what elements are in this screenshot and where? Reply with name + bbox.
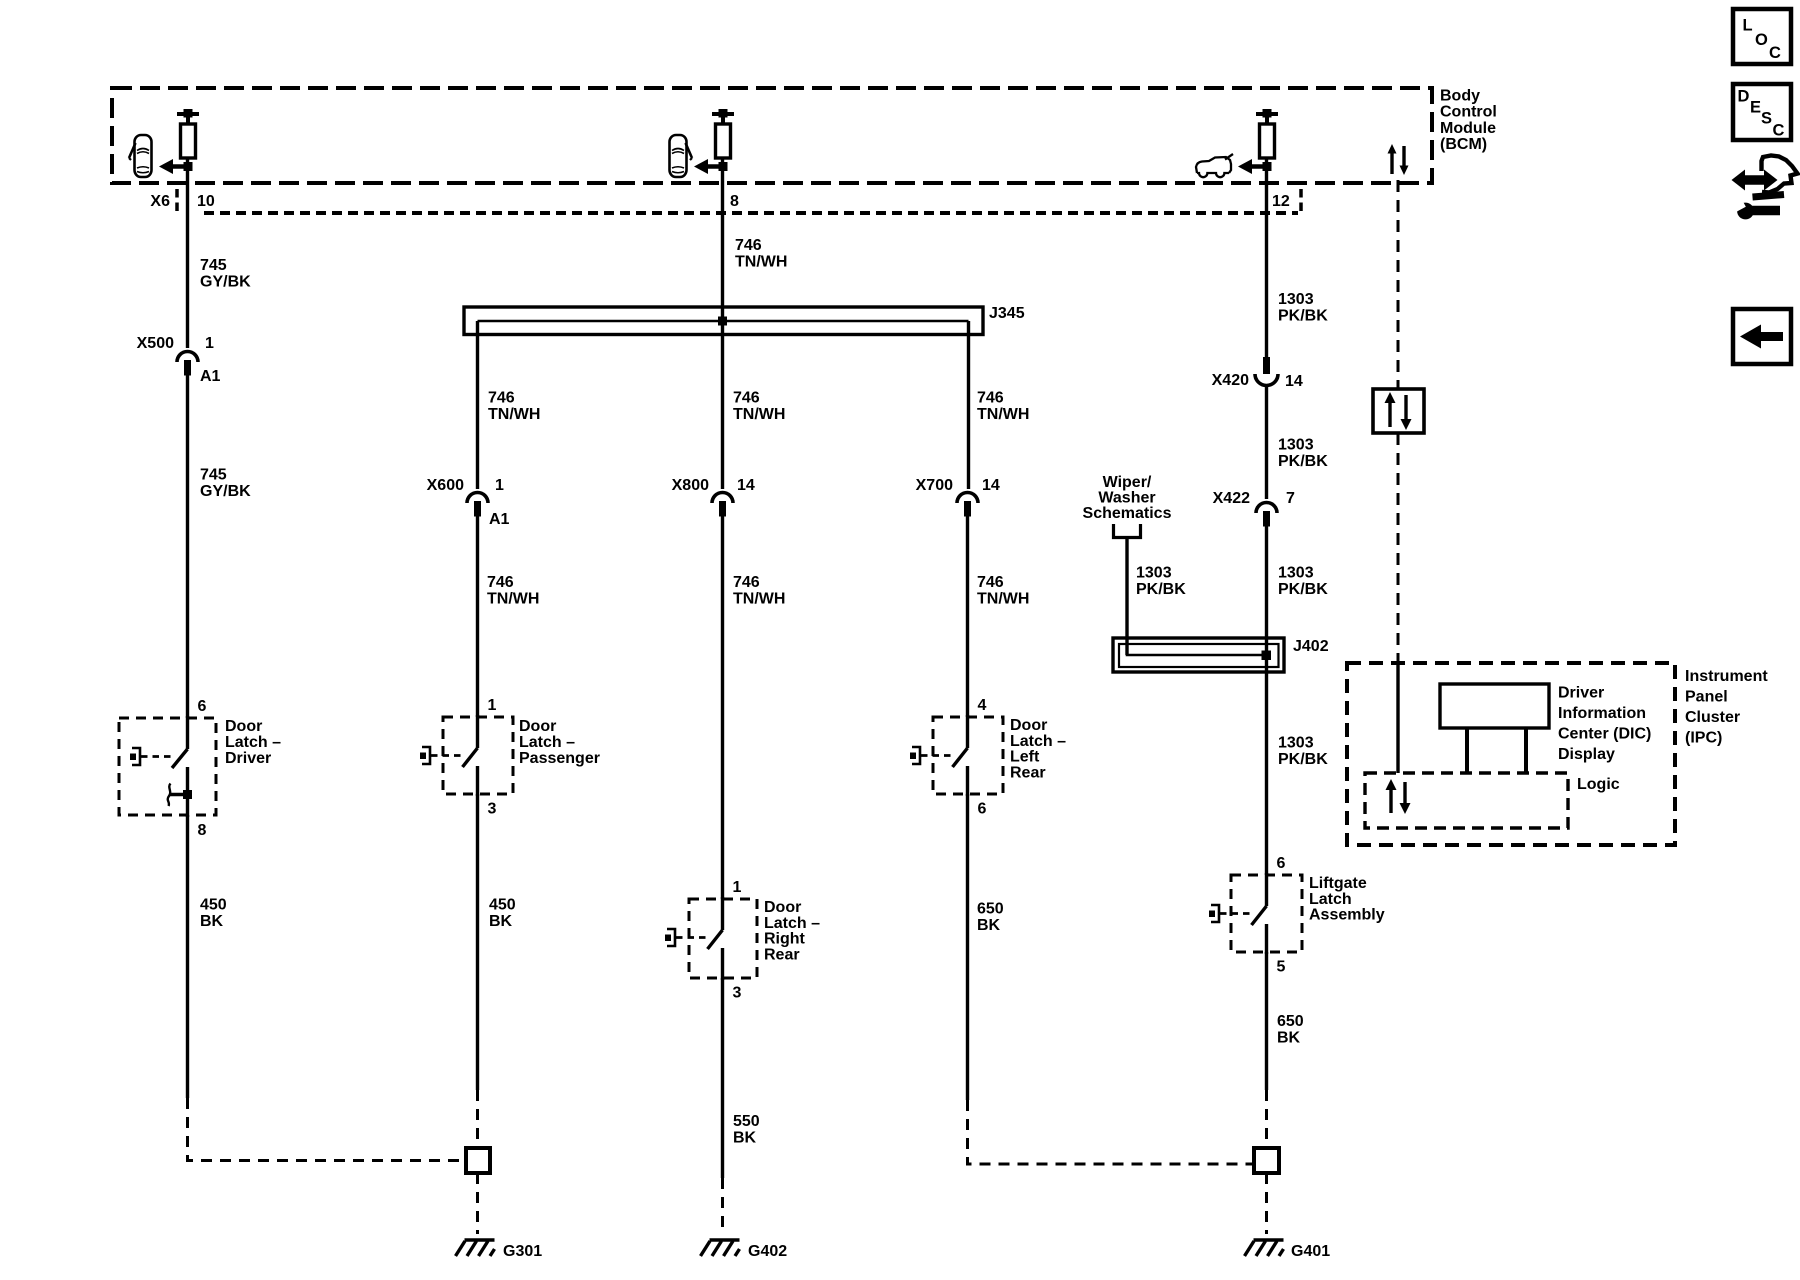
svg-text:8: 8 (198, 822, 207, 839)
junction dot (719, 162, 728, 171)
latch actuator bracket (422, 747, 430, 764)
svg-text:1303: 1303 (1278, 735, 1314, 752)
wire: passenger latch pin 3 down (450 BK) (476, 794, 479, 1090)
svg-text:746: 746 (733, 390, 760, 407)
wire: X700 to left rear door latch (966, 516, 969, 717)
svg-text:Driver: Driver (225, 750, 271, 767)
svg-text:10: 10 (197, 193, 215, 210)
connector X600 pin 1 (467, 493, 488, 504)
svg-text:(IPC): (IPC) (1685, 730, 1722, 747)
svg-text:C: C (1769, 44, 1781, 62)
svg-text:(BCM): (BCM) (1440, 136, 1487, 153)
svg-text:TN/WH: TN/WH (487, 591, 539, 608)
svg-text:Left: Left (1010, 749, 1040, 766)
switch lower contact wire (186, 767, 189, 817)
svg-text:550: 550 (733, 1113, 760, 1130)
svg-text:J345: J345 (989, 305, 1025, 322)
latch switch dashed box (443, 717, 513, 794)
BCM driver output passenger/rear doors: indicator arrow (706, 164, 723, 169)
latch actuator bracket (667, 929, 675, 946)
DIC display symbol (1440, 684, 1549, 728)
connector X420 pin 14 (1263, 357, 1270, 374)
svg-text:PK/BK: PK/BK (1278, 308, 1328, 325)
switch blade (463, 748, 478, 767)
svg-text:X700: X700 (916, 477, 953, 494)
svg-text:TN/WH: TN/WH (733, 406, 785, 423)
switch common wire (186, 716, 189, 749)
latch switch dashed box (1231, 875, 1302, 952)
serial data dashed wire to IPC (1397, 433, 1400, 663)
latch switch dashed box (689, 899, 757, 978)
up arrow (1388, 400, 1391, 427)
connector X500 pin 1 (177, 352, 198, 362)
svg-text:O: O (1755, 31, 1768, 49)
actuator link (dashed) (1220, 912, 1250, 915)
svg-text:Latch –: Latch – (1010, 733, 1066, 750)
svg-text:Cluster: Cluster (1685, 709, 1740, 726)
DESC icon box (1733, 84, 1791, 140)
svg-text:Latch –: Latch – (764, 915, 820, 932)
G401 junction box (1254, 1148, 1279, 1173)
svg-text:Rear: Rear (1010, 764, 1046, 781)
svg-text:Module: Module (1440, 120, 1496, 137)
ground G301 (465, 1238, 495, 1242)
svg-text:746: 746 (977, 390, 1004, 407)
svg-text:X6: X6 (150, 193, 170, 210)
svg-text:L: L (1743, 17, 1753, 35)
BCM driver output passenger/rear doors: supply T-bar (712, 112, 734, 116)
splice pack J345 outer box (464, 307, 983, 335)
dashed wire to G401 junction (968, 1100, 1253, 1164)
dashed wire junction to ground (1265, 1173, 1268, 1234)
splice pack J402 inner box (1119, 644, 1279, 667)
svg-text:GY/BK: GY/BK (200, 274, 251, 291)
wire: BCM pin 10 to X500 (745 GY/BK) (186, 158, 189, 348)
wire: J345 to X700 (746 TN/WH) (967, 321, 970, 489)
svg-text:7: 7 (1286, 490, 1295, 507)
latch actuator bracket (912, 747, 920, 764)
svg-text:Driver: Driver (1558, 685, 1604, 702)
BCM driver output driver door: indicator arrow (171, 164, 188, 169)
svg-text:Door: Door (764, 899, 801, 916)
svg-text:745: 745 (200, 467, 227, 484)
ground G402 (710, 1238, 740, 1242)
svg-text:14: 14 (982, 477, 1000, 494)
svg-text:G401: G401 (1291, 1243, 1330, 1260)
svg-text:6: 6 (198, 698, 207, 715)
ground G401 (1254, 1238, 1284, 1242)
svg-text:PK/BK: PK/BK (1278, 581, 1328, 598)
wire: X800 to right rear door latch (721, 516, 724, 899)
svg-text:Panel: Panel (1685, 689, 1728, 706)
svg-text:8: 8 (730, 193, 739, 210)
svg-text:X600: X600 (427, 477, 464, 494)
Body Control Module (BCM) dashed box (112, 88, 1432, 183)
dashed wire junction to ground (476, 1173, 479, 1234)
svg-text:Latch: Latch (1309, 891, 1352, 908)
switch blade (953, 748, 968, 767)
svg-text:TN/WH: TN/WH (733, 591, 785, 608)
svg-text:Door: Door (1010, 717, 1047, 734)
svg-text:X800: X800 (672, 477, 709, 494)
svg-text:3: 3 (733, 985, 742, 1002)
svg-text:E: E (1750, 99, 1761, 117)
svg-text:Washer: Washer (1098, 490, 1155, 507)
svg-text:6: 6 (1277, 855, 1286, 872)
svg-text:Latch –: Latch – (519, 734, 575, 751)
svg-text:Instrument: Instrument (1685, 668, 1768, 685)
svg-text:Latch –: Latch – (225, 734, 281, 751)
switch blade (172, 749, 188, 768)
G301 junction box (466, 1148, 490, 1173)
svg-text:746: 746 (488, 390, 515, 407)
junction dot on J402 bus (1262, 651, 1272, 661)
actuator link (dashed) (431, 754, 461, 757)
wire: X422 to J402 (1303 PK/BK) (1265, 526, 1268, 672)
car icon (top view, door ajar) (670, 135, 687, 177)
connector X800 pin 14 (712, 493, 733, 504)
svg-text:PK/BK: PK/BK (1136, 581, 1186, 598)
bidirectional data box (1373, 389, 1424, 433)
svg-text:1303: 1303 (1278, 565, 1314, 582)
svg-text:G402: G402 (748, 1243, 787, 1260)
wire: X600 to passenger door latch (476, 516, 479, 717)
svg-text:Right: Right (764, 931, 806, 948)
svg-text:Display: Display (1558, 746, 1615, 763)
splice pack J402 outer box (1113, 638, 1284, 672)
svg-text:D: D (1738, 88, 1750, 106)
svg-text:1303: 1303 (1278, 437, 1314, 454)
svg-text:14: 14 (737, 477, 755, 494)
junction dot (184, 162, 193, 171)
svg-text:X500: X500 (137, 335, 174, 352)
svg-text:746: 746 (977, 574, 1004, 591)
svg-text:5: 5 (1277, 959, 1286, 976)
dashed wire to ground G402 (721, 1178, 724, 1234)
svg-text:Body: Body (1440, 88, 1480, 105)
svg-text:1: 1 (488, 697, 497, 714)
wire: liftgate latch pin 5 down (650 BK) (1265, 952, 1268, 1090)
svg-text:TN/WH: TN/WH (977, 591, 1029, 608)
junction dot on J345 bus (718, 317, 727, 326)
switch common wire (476, 715, 479, 748)
svg-text:12: 12 (1272, 193, 1290, 210)
svg-text:1: 1 (205, 335, 214, 352)
back arrow icon box (1733, 309, 1791, 364)
svg-text:PK/BK: PK/BK (1278, 751, 1328, 768)
splice pack J345 inner bus bar (478, 320, 969, 323)
J402 internal bus from wiper branch (1127, 644, 1262, 655)
svg-text:1303: 1303 (1278, 291, 1314, 308)
svg-text:J402: J402 (1293, 638, 1329, 655)
switch lower contact wire (476, 766, 479, 796)
Logic dashed box (1365, 773, 1568, 828)
X6 connector tick (left) (175, 189, 179, 211)
car icon (top view, door ajar) (135, 135, 152, 177)
svg-text:3: 3 (488, 801, 497, 818)
latch actuator bracket (132, 748, 140, 765)
svg-text:X420: X420 (1212, 372, 1249, 389)
svg-text:C: C (1773, 122, 1785, 140)
BCM driver output driver door: driver element (resistor box) (181, 124, 196, 158)
SUV icon (side view, liftgate ajar) (1196, 157, 1231, 173)
junction dot (1263, 162, 1272, 171)
logic down arrow (1403, 782, 1406, 806)
svg-text:14: 14 (1285, 373, 1303, 390)
svg-text:Control: Control (1440, 104, 1497, 121)
logic up arrow (1389, 787, 1392, 813)
wire: J345 to X600 (746 TN/WH) (476, 321, 479, 489)
second contact curl (168, 784, 171, 807)
svg-text:GY/BK: GY/BK (200, 483, 251, 500)
switch blade (1252, 906, 1267, 925)
dashed wire into junction (1265, 1090, 1268, 1148)
second contact lead (169, 793, 188, 796)
svg-text:Passenger: Passenger (519, 750, 600, 767)
schematics navigation icon (1743, 175, 1765, 185)
svg-text:1: 1 (495, 477, 504, 494)
svg-text:A1: A1 (200, 368, 221, 385)
serial data wire inside IPC (1396, 663, 1399, 773)
off-page connector bracket (1114, 524, 1141, 538)
switch common wire (966, 715, 969, 748)
svg-text:TN/WH: TN/WH (488, 406, 540, 423)
svg-text:Center (DIC): Center (DIC) (1558, 726, 1651, 743)
dashed wire to G301 junction (188, 1098, 465, 1161)
wire: J402 to liftgate latch (1303 PK/BK) (1265, 672, 1268, 875)
wire: X500 to driver door latch (745 GY/BK) (186, 375, 189, 718)
svg-text:PK/BK: PK/BK (1278, 453, 1328, 470)
wrench (1737, 203, 1754, 220)
svg-text:746: 746 (735, 237, 762, 254)
actuator link (dashed) (921, 754, 951, 757)
BCM driver output driver door: supply T-bar (177, 112, 199, 116)
wire: BCM pin 12 to X420 (1303 PK/BK) (1265, 158, 1268, 357)
switch lower contact wire (966, 766, 969, 796)
svg-text:Liftgate: Liftgate (1309, 875, 1367, 892)
actuator link (dashed) (676, 936, 706, 939)
BCM driver output liftgate: supply T-bar (1256, 112, 1278, 116)
actuator link (dashed) (141, 755, 171, 758)
switch lower contact wire (1265, 924, 1268, 954)
svg-text:745: 745 (200, 257, 227, 274)
connector X700 pin 14 (957, 493, 978, 504)
svg-text:TN/WH: TN/WH (735, 254, 787, 271)
svg-text:S: S (1761, 110, 1772, 128)
BCM driver output passenger/rear doors: driver element (resistor box) (716, 124, 731, 158)
svg-text:G301: G301 (503, 1243, 542, 1260)
svg-text:X422: X422 (1213, 490, 1250, 507)
wire: wiper/washer to J402 (1303 PK/BK) (1125, 539, 1128, 655)
svg-text:6: 6 (978, 801, 987, 818)
latch actuator bracket (1211, 905, 1219, 922)
svg-text:450: 450 (200, 897, 227, 914)
wire: driver latch pin 8 down (450 BK) (186, 815, 189, 1098)
svg-text:1303: 1303 (1136, 565, 1172, 582)
switch lower contact wire (721, 948, 724, 980)
svg-text:650: 650 (977, 901, 1004, 918)
svg-text:Rear: Rear (764, 946, 800, 963)
connector X422 pin 7 (1256, 503, 1277, 514)
svg-text:1: 1 (733, 879, 742, 896)
wire: X420 to X422 (1303 PK/BK) (1265, 385, 1268, 499)
svg-text:Assembly: Assembly (1309, 907, 1385, 924)
X6 connector tick (right) (1299, 189, 1303, 211)
svg-text:746: 746 (733, 574, 760, 591)
wire: BCM pin 8 to J345 and X800 (746 TN/WH) (721, 158, 724, 489)
svg-text:4: 4 (978, 697, 987, 714)
svg-text:TN/WH: TN/WH (977, 406, 1029, 423)
latch switch dashed box (933, 717, 1003, 794)
switch common wire (1265, 873, 1268, 906)
svg-text:450: 450 (489, 897, 516, 914)
Door Latch - Driver switch box (119, 718, 216, 815)
BCM driver output liftgate: indicator arrow (1250, 164, 1267, 169)
svg-text:BK: BK (489, 913, 513, 930)
svg-text:Logic: Logic (1577, 776, 1620, 793)
svg-text:Wiper/: Wiper/ (1103, 474, 1152, 491)
wire: left rear latch pin 6 down (650 BK) (966, 794, 969, 1100)
serial data arrows inside BCM (1390, 152, 1393, 174)
svg-text:A1: A1 (489, 511, 510, 528)
Instrument Panel Cluster (IPC) dashed box (1347, 663, 1675, 845)
wire: right rear latch pin 3 down (550 BK) (721, 978, 724, 1178)
svg-text:BK: BK (733, 1130, 757, 1147)
svg-text:Door: Door (225, 718, 262, 735)
svg-text:BK: BK (1277, 1030, 1301, 1047)
svg-text:BK: BK (200, 913, 224, 930)
BCM driver output liftgate: driver element (resistor box) (1260, 124, 1275, 158)
svg-text:650: 650 (1277, 1013, 1304, 1030)
switch common wire (721, 897, 724, 930)
down arrow (1404, 395, 1407, 421)
connector X6 dotted line (204, 211, 1298, 215)
dashed wire into junction (476, 1090, 479, 1148)
serial data dashed wire BCM to comparator (1397, 180, 1400, 389)
svg-text:Information: Information (1558, 705, 1646, 722)
svg-text:BK: BK (977, 917, 1001, 934)
svg-text:Door: Door (519, 718, 556, 735)
LOC icon box (1733, 9, 1791, 64)
svg-text:Schematics: Schematics (1083, 505, 1172, 522)
svg-text:746: 746 (487, 574, 514, 591)
switch blade (708, 930, 723, 949)
second contact junction dot (183, 790, 192, 799)
